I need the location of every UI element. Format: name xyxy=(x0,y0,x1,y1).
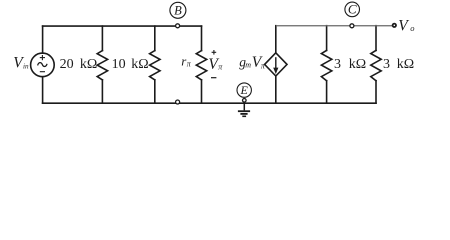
resistor 10k zigzag xyxy=(150,51,160,80)
svg-text:in: in xyxy=(23,63,29,71)
voltage source plus sign xyxy=(40,55,45,60)
wire rpi bottom leg xyxy=(201,80,203,103)
wire 3k first top leg xyxy=(326,26,328,51)
wire collector thin rail xyxy=(276,25,393,27)
label 10 kOhm xyxy=(112,57,149,72)
svg-text:C: C xyxy=(348,2,357,17)
resistor 3k first zigzag xyxy=(321,50,331,80)
svg-text:kΩ: kΩ xyxy=(349,57,366,72)
dep source arrow shaft xyxy=(275,57,277,68)
label gm V pi xyxy=(239,54,266,71)
label Vin xyxy=(13,55,29,72)
voltage source minus sign xyxy=(40,71,45,73)
wire 3k second top leg xyxy=(375,26,377,51)
dep source arrow head xyxy=(273,68,278,74)
ground xyxy=(238,111,250,116)
svg-text:B: B xyxy=(174,3,182,17)
svg-text:V: V xyxy=(398,18,409,35)
label 3 kOhm second xyxy=(383,57,414,72)
wire 20k bottom leg xyxy=(101,80,103,103)
dependent current source diamond xyxy=(265,53,287,76)
wire left stub below source xyxy=(42,77,44,104)
resistor 20k zigzag xyxy=(97,51,107,80)
svg-text:E: E xyxy=(240,83,249,97)
svg-text:o: o xyxy=(410,23,414,33)
wire bottom rail xyxy=(43,102,376,104)
svg-text:kΩ: kΩ xyxy=(131,57,148,72)
node B-return terminal circle on bottom rail xyxy=(176,100,180,104)
node C terminal circle xyxy=(350,24,354,28)
voltage source Vin circle xyxy=(31,53,55,77)
label V pi minus xyxy=(211,77,216,79)
svg-text:3: 3 xyxy=(383,57,390,72)
node E circled label xyxy=(237,83,251,97)
node Vo terminal circle xyxy=(393,24,396,27)
node E terminal circle xyxy=(243,99,247,103)
svg-text:kΩ: kΩ xyxy=(80,57,97,72)
resistor 3k second zigzag xyxy=(371,50,381,80)
wire left stub above source xyxy=(42,26,44,53)
label r pi xyxy=(181,53,192,68)
wire 10k top leg xyxy=(154,26,156,50)
wire rpi top leg xyxy=(201,26,203,50)
wire top-left rail xyxy=(43,25,202,27)
resistor rpi zigzag xyxy=(196,51,206,80)
node C circled label xyxy=(345,2,360,17)
wire 3k first bottom leg xyxy=(326,81,328,104)
label 3 kOhm first xyxy=(334,57,366,72)
svg-text:10: 10 xyxy=(112,57,126,72)
label V pi xyxy=(208,56,223,73)
wire dep source top leg xyxy=(275,26,277,53)
svg-text:20: 20 xyxy=(60,57,74,72)
ground stub xyxy=(243,103,245,110)
voltage source sine symbol xyxy=(38,63,48,67)
wire 3k second bottom leg xyxy=(375,81,377,104)
wire 10k bottom leg xyxy=(154,80,156,103)
node B terminal circle xyxy=(176,24,180,28)
node B circled label xyxy=(170,2,186,18)
label V pi plus xyxy=(212,50,217,55)
wire 20k top leg xyxy=(101,26,103,50)
svg-text:3: 3 xyxy=(334,57,341,72)
wire dep source bottom leg xyxy=(275,76,277,103)
svg-text:kΩ: kΩ xyxy=(397,57,414,72)
label 20 kOhm xyxy=(60,57,98,72)
label Vo xyxy=(398,18,414,35)
svg-text:m: m xyxy=(245,61,251,70)
